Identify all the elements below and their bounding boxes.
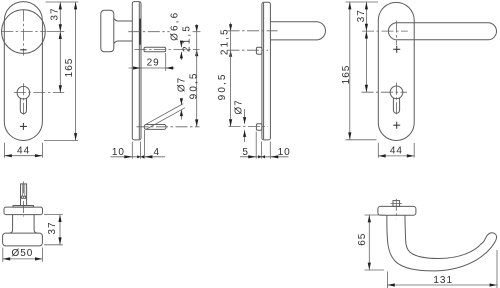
dimension 44 fig4: [378, 143, 414, 158]
extension line base right: [41, 248, 43, 262]
boss B2 bottom fig3: [256, 124, 262, 131]
euro cylinder cutout fig1: [17, 86, 30, 113]
screw mark bottom fig1: [20, 123, 27, 130]
svg-text:37: 37: [47, 221, 58, 234]
plate P2 side view (knob side): [132, 2, 141, 140]
screw mark bottom fig4: [393, 122, 400, 129]
extension line grip bottom: [365, 269, 385, 271]
dimension 37 fig1: [49, 2, 62, 32]
svg-text:21,5: 21,5: [219, 27, 230, 55]
plate P4 lever backplate front view: [378, 2, 414, 140]
extension line top fig4: [346, 1, 379, 3]
centerline spindle: [23, 182, 25, 217]
centerline hub vertical: [395, 199, 397, 219]
knob K1 front circle: [2, 10, 46, 54]
dimension 5 and 10 fig3: [240, 147, 291, 159]
centerline boss B1: [228, 49, 269, 51]
svg-text:37: 37: [356, 9, 367, 22]
dimension dia 6,6 fig2: [170, 11, 183, 60]
spindle notch: [21, 196, 25, 198]
spindle inner edges: [22, 184, 25, 196]
knob neck profile: [9, 215, 37, 234]
dimension 44 fig1: [4, 143, 42, 158]
screw S2 bottom slot side view: [144, 125, 166, 130]
extension line plate right fig3: [269, 142, 271, 159]
svg-text:165: 165: [64, 58, 75, 78]
washer under spindle: [13, 206, 34, 208]
svg-text:10: 10: [112, 147, 125, 158]
screw mark top fig1: [20, 49, 26, 51]
centerline K1 vertical: [22, 9, 24, 55]
extension line top fig1: [46, 1, 79, 3]
extension line plate back fig2: [140, 142, 142, 159]
extension line plate left fig3: [261, 142, 263, 159]
plate P1 knob backplate front view: [4, 2, 42, 141]
svg-text:90,5: 90,5: [217, 72, 228, 100]
svg-text:Ø7: Ø7: [176, 77, 187, 92]
extension line bottom fig1: [44, 140, 78, 142]
knob K1 side view stem: [114, 18, 133, 43]
dimension 90,5 fig3: [217, 50, 232, 126]
extension line plate front fig2: [131, 142, 133, 159]
svg-text:5: 5: [242, 147, 249, 158]
svg-text:90,5: 90,5: [188, 71, 199, 99]
svg-text:37: 37: [49, 7, 60, 20]
extension line boss face fig3: [255, 132, 257, 159]
extension line slot end fig2: [165, 53, 167, 71]
plate P2 inner back line: [138, 2, 140, 139]
centerline cylinder fig4 vertical: [396, 83, 398, 116]
svg-text:165: 165: [341, 65, 352, 85]
oblique extension line bottom for dia 7 fig2: [146, 108, 186, 130]
dimension 65: [357, 215, 371, 270]
knob flange plate: [4, 207, 43, 215]
extension line grip right: [496, 250, 498, 288]
dimension 21,5 fig3: [219, 23, 232, 57]
svg-text:21,5: 21,5: [181, 24, 192, 52]
dimension dia 50: [3, 248, 43, 260]
lever hub square: [393, 201, 400, 207]
centerline cylinder fig1 vertical: [22, 83, 24, 116]
extension line bottom fig4: [346, 139, 377, 141]
centerline lever axis fig3: [228, 30, 278, 32]
dimension 37 knob: [47, 215, 62, 245]
knob base head: [3, 233, 43, 246]
extension line knob axis fig1: [47, 31, 65, 33]
svg-text:Ø50: Ø50: [11, 248, 33, 259]
boss B1 top fig3: [256, 47, 262, 54]
lever L1 front view: [388, 23, 496, 40]
dimension chain knob axis to cylinder axis fig1: [59, 32, 62, 93]
dimension 90,5 fig2: [188, 50, 199, 127]
centerline cylinder fig1 horizontal: [14, 92, 64, 94]
dimension 165 fig4: [341, 2, 352, 140]
svg-text:44: 44: [17, 145, 30, 156]
svg-text:10: 10: [278, 147, 291, 158]
dimension 165 fig1: [64, 2, 77, 141]
extension line flange bottom: [44, 214, 63, 216]
svg-text:Ø7: Ø7: [233, 99, 244, 114]
extension line base bottom: [44, 244, 63, 246]
svg-text:29: 29: [147, 58, 160, 69]
screw S1 top slot side view: [144, 47, 166, 52]
lever rose plate: [378, 206, 416, 215]
screw mark top fig4: [393, 46, 400, 53]
spindle square bar top view: [21, 184, 27, 206]
centerline lever front vertical: [396, 21, 398, 45]
dimension 29 fig2: [129, 58, 175, 70]
svg-text:Ø6,6: Ø6,6: [170, 11, 181, 41]
extension line grip left: [386, 272, 388, 288]
centerline K1 horizontal: [1, 31, 46, 33]
extension line rose bottom: [365, 214, 386, 216]
dimension dia 7 fig2 vertical: [180, 98, 183, 119]
centerline boss B2: [229, 126, 269, 128]
centerline screw S2: [137, 126, 200, 128]
euro cylinder cutout fig4: [390, 86, 403, 113]
extension line offset 4 fig2: [144, 130, 146, 159]
svg-text:65: 65: [357, 233, 368, 246]
dimension 21,5 fig2: [181, 24, 198, 58]
centerline lever front horizontal: [362, 30, 408, 32]
svg-text:131: 131: [433, 275, 453, 286]
knob K1 side view head: [101, 10, 114, 52]
oblique extension line top for dia 7 fig2: [145, 104, 183, 125]
centerline knob axis side view: [128, 31, 169, 33]
svg-text:44: 44: [390, 146, 403, 157]
plate P3 side view (lever side): [262, 2, 271, 140]
lever L1 side view: [270, 22, 325, 40]
centerline screw S1: [135, 49, 200, 51]
extension line base left: [2, 248, 4, 262]
dimension 131: [387, 275, 497, 286]
knob flange edge on plate: [139, 19, 141, 45]
dimension dia 7 fig3: [233, 99, 246, 142]
dimension 10 and 4 fig2: [111, 147, 166, 159]
dimension 37 fig4: [356, 2, 368, 31]
svg-text:4: 4: [154, 147, 161, 158]
lever grip profile: [387, 215, 497, 271]
centerline cylinder fig4 horizontal: [362, 91, 408, 93]
plate P3 inner line: [263, 3, 265, 139]
centerline hub horizontal: [391, 203, 402, 205]
dimension chain lever axis to cylinder axis fig4: [365, 31, 368, 92]
